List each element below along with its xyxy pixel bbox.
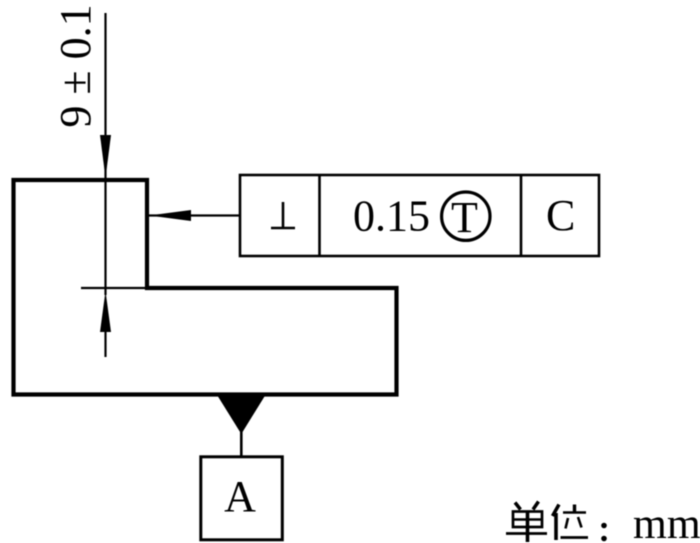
feature control frame — [240, 175, 599, 256]
unit label: fullwidth colon — [601, 523, 607, 542]
svg-text:9 ± 0.1: 9 ± 0.1 — [51, 4, 100, 127]
datum letter A — [224, 472, 256, 521]
datum stem — [240, 430, 243, 457]
extension line (step face) — [81, 287, 149, 289]
datum box — [201, 457, 282, 540]
part outline (L-shaped block) — [14, 180, 397, 395]
dimension arrow top (points down at top face) — [100, 135, 111, 178]
perpendicularity symbol — [271, 202, 295, 228]
svg-text:C: C — [546, 191, 575, 240]
dimension arrow bottom stem — [104, 330, 106, 357]
unit label: hanzi 位 (hand-drawn strokes) — [553, 505, 589, 541]
tolerance value 0.15 — [353, 192, 430, 241]
svg-text:T: T — [451, 193, 478, 242]
dimension line (vertical, 9±0.1) — [104, 13, 106, 295]
leader arrow (points left at part edge) — [149, 210, 191, 221]
leader line to feature control frame — [149, 214, 240, 216]
datum reference letter C — [546, 191, 575, 240]
datum feature triangle (filled) — [218, 397, 265, 435]
tangent plane modifier letter T — [451, 193, 478, 242]
tangent plane modifier circle — [442, 192, 490, 240]
svg-text:mm: mm — [633, 500, 700, 543]
dimension text 9 ± 0.1 (rotated) — [51, 4, 100, 127]
svg-text:A: A — [224, 472, 256, 521]
dimension arrow bottom (points up at step face) — [100, 291, 111, 332]
unit label: hanzi 单 (hand-drawn strokes) — [506, 502, 547, 543]
unit label: mm — [633, 500, 700, 543]
svg-text:0.15: 0.15 — [353, 192, 430, 241]
